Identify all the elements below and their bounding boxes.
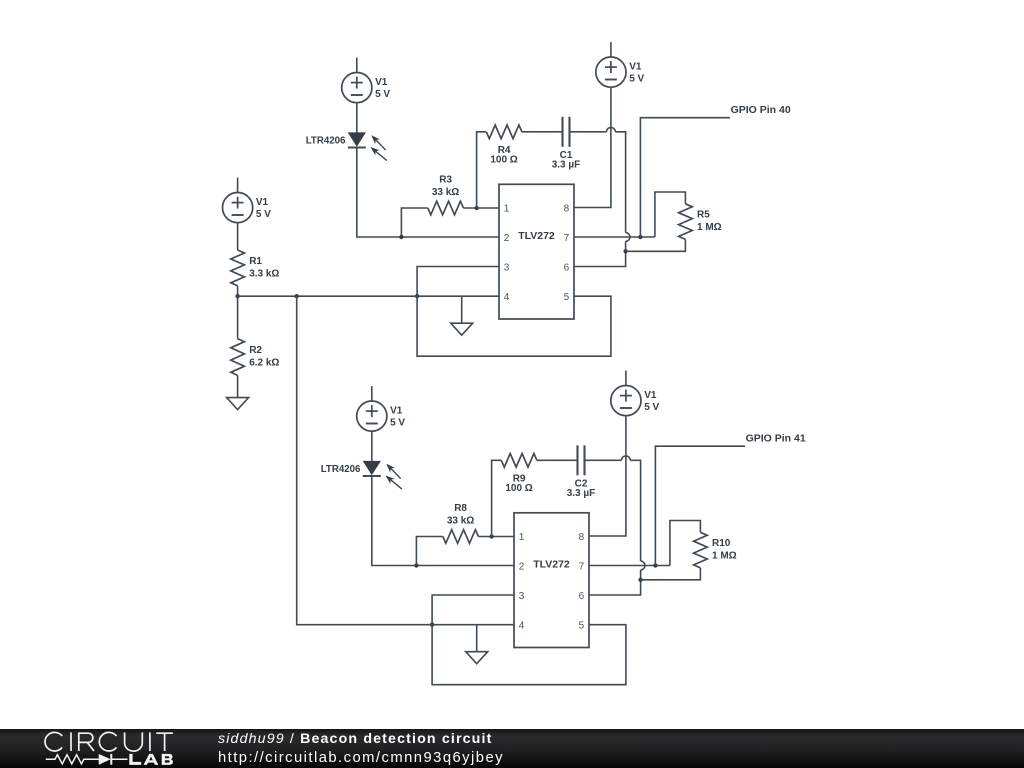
svg-text:1: 1 bbox=[504, 203, 510, 214]
svg-text:3.3 kΩ: 3.3 kΩ bbox=[249, 268, 279, 279]
svg-text:6: 6 bbox=[564, 262, 570, 273]
svg-text:R5: R5 bbox=[697, 210, 710, 221]
svg-text:1 MΩ: 1 MΩ bbox=[697, 222, 722, 233]
svg-text:V1: V1 bbox=[390, 406, 403, 417]
svg-text:33 kΩ: 33 kΩ bbox=[447, 516, 474, 527]
svg-text:8: 8 bbox=[564, 203, 570, 214]
svg-text:5: 5 bbox=[579, 620, 585, 631]
svg-text:LTR4206: LTR4206 bbox=[306, 136, 346, 147]
svg-text:R3: R3 bbox=[439, 175, 452, 186]
svg-text:5: 5 bbox=[564, 292, 570, 303]
svg-text:3.3 µF: 3.3 µF bbox=[567, 488, 596, 499]
svg-text:5 V: 5 V bbox=[644, 402, 659, 413]
svg-text:V1: V1 bbox=[644, 390, 657, 401]
svg-text:5 V: 5 V bbox=[629, 73, 644, 84]
svg-text:8: 8 bbox=[579, 532, 585, 543]
svg-text:5 V: 5 V bbox=[375, 89, 390, 100]
svg-text:GPIO Pin 40: GPIO Pin 40 bbox=[731, 104, 791, 116]
svg-text:7: 7 bbox=[579, 561, 585, 572]
svg-text:100 Ω: 100 Ω bbox=[505, 483, 532, 494]
svg-text:R10: R10 bbox=[712, 538, 731, 549]
svg-text:TLV272: TLV272 bbox=[518, 230, 555, 242]
svg-text:R8: R8 bbox=[454, 503, 467, 514]
svg-text:5 V: 5 V bbox=[390, 417, 405, 428]
svg-text:3: 3 bbox=[504, 262, 510, 273]
svg-text:LTR4206: LTR4206 bbox=[321, 464, 361, 475]
svg-text:4: 4 bbox=[504, 292, 510, 303]
svg-text:V1: V1 bbox=[375, 77, 388, 88]
svg-text:R1: R1 bbox=[249, 256, 262, 267]
svg-text:GPIO Pin 41: GPIO Pin 41 bbox=[746, 432, 806, 444]
svg-text:33 kΩ: 33 kΩ bbox=[432, 187, 459, 198]
svg-text:6.2 kΩ: 6.2 kΩ bbox=[249, 358, 279, 369]
svg-text:7: 7 bbox=[564, 233, 570, 244]
svg-text:1: 1 bbox=[519, 532, 525, 543]
svg-text:3: 3 bbox=[519, 591, 525, 602]
svg-text:100 Ω: 100 Ω bbox=[490, 154, 517, 165]
svg-text:5 V: 5 V bbox=[256, 209, 271, 220]
svg-text:R2: R2 bbox=[249, 345, 262, 356]
svg-text:V1: V1 bbox=[256, 197, 269, 208]
svg-text:2: 2 bbox=[519, 561, 525, 572]
svg-text:4: 4 bbox=[519, 620, 525, 631]
svg-text:3.3 µF: 3.3 µF bbox=[552, 159, 581, 170]
svg-text:V1: V1 bbox=[629, 62, 642, 73]
svg-text:2: 2 bbox=[504, 233, 510, 244]
svg-text:TLV272: TLV272 bbox=[533, 559, 570, 571]
svg-text:1 MΩ: 1 MΩ bbox=[712, 551, 737, 562]
svg-text:6: 6 bbox=[579, 591, 585, 602]
